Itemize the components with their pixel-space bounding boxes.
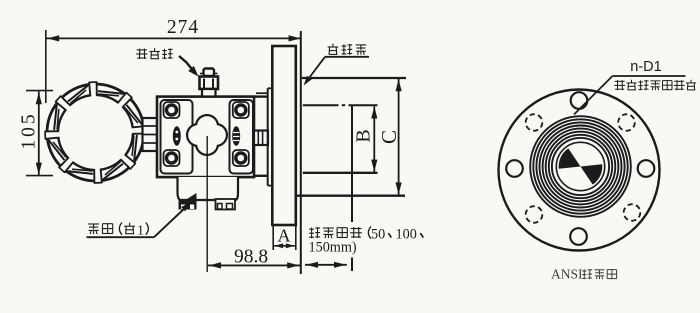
dim C: [398, 79, 400, 195]
right foot: [216, 199, 236, 210]
svg-text:150mm): 150mm): [309, 239, 357, 255]
svg-text:100: 100: [396, 226, 417, 242]
svg-text:50: 50: [371, 226, 385, 242]
svg-text:ANSI: ANSI: [551, 267, 583, 282]
dim 105 ext lines: [26, 90, 53, 92]
svg-text:274: 274: [167, 17, 199, 38]
left oval slot: [173, 126, 181, 146]
neck: [143, 118, 158, 151]
tube bottom edge / C bottom ext: [297, 195, 405, 197]
insertion length text line1: 4 CJK + (50, 100,: [309, 228, 314, 230]
right oval slot: [232, 126, 240, 146]
flange outer circle: [499, 90, 660, 251]
label underline: [613, 75, 686, 77]
body outline: [157, 97, 254, 178]
hole count text (6 CJK): [615, 80, 625, 82]
label: sealing face (3 CJK): [332, 44, 334, 47]
housing inner circle: [58, 95, 133, 170]
leader to vent valve: [179, 56, 193, 71]
sealing face leader: [325, 56, 369, 58]
svg-text:C: C: [377, 130, 401, 144]
housing gear notches and blades: [89, 80, 97, 99]
tube top edge / C top ext: [302, 77, 406, 79]
stub screw body to hub: [254, 131, 268, 146]
bolt hole right: [638, 160, 655, 177]
body left bolt plate: [161, 100, 193, 174]
sealing face line: [300, 31, 302, 274]
leader through top hole: [574, 76, 613, 115]
center circle: [556, 142, 604, 190]
svg-text:98.8: 98.8: [234, 247, 268, 268]
bolt hole left: [506, 160, 523, 177]
dim 274 extension line left: [45, 30, 47, 103]
dim B: [373, 106, 375, 172]
label: connector 2 CJK + (note1): [88, 223, 99, 225]
bottom bracket: [178, 177, 239, 200]
quatrefoil process flange: [187, 115, 227, 155]
label underline + leader: [87, 236, 155, 238]
svg-text:n-D1: n-D1: [630, 59, 661, 75]
inner bottom line / B bottom ext: [303, 172, 378, 174]
dim A line: [274, 245, 296, 247]
tube end vertical: [351, 105, 353, 222]
dim 274 line: [47, 37, 302, 39]
dim A ext lines: [272, 225, 274, 250]
bolt holes dashed (45 deg): [526, 114, 543, 131]
dim 105 line: [38, 92, 40, 176]
housing outer circle: [47, 84, 144, 181]
bolt top-right: [233, 102, 249, 118]
gasket concentric rings: [530, 116, 631, 217]
body right bolt plate: [230, 100, 254, 174]
inner top dash-dot line / B top ext: [303, 104, 339, 106]
bolt hole bottom: [570, 228, 587, 245]
diaphragm bowtie sectors: [559, 148, 581, 168]
vent valve (top): [204, 69, 215, 77]
flange back hub strip: [267, 88, 269, 185]
svg-text:B: B: [353, 129, 375, 142]
label: vent valve (3 CJK chars): [137, 49, 147, 51]
bolt top-left: [164, 102, 180, 118]
body top edge extension to hub: [254, 95, 268, 97]
svg-text:A: A: [278, 226, 291, 246]
bolt bottom-left: [164, 150, 180, 166]
svg-text:105: 105: [19, 111, 40, 149]
vertical centerline: [206, 136, 208, 272]
body bottom edge extension to hub: [254, 175, 268, 177]
bolt hole top: [571, 92, 588, 109]
dim 98.8 line: [208, 264, 300, 266]
flange plate: [272, 46, 296, 225]
bolt bottom-right: [233, 150, 249, 166]
left foot (black): [179, 193, 197, 210]
insertion dim line: [305, 264, 347, 266]
